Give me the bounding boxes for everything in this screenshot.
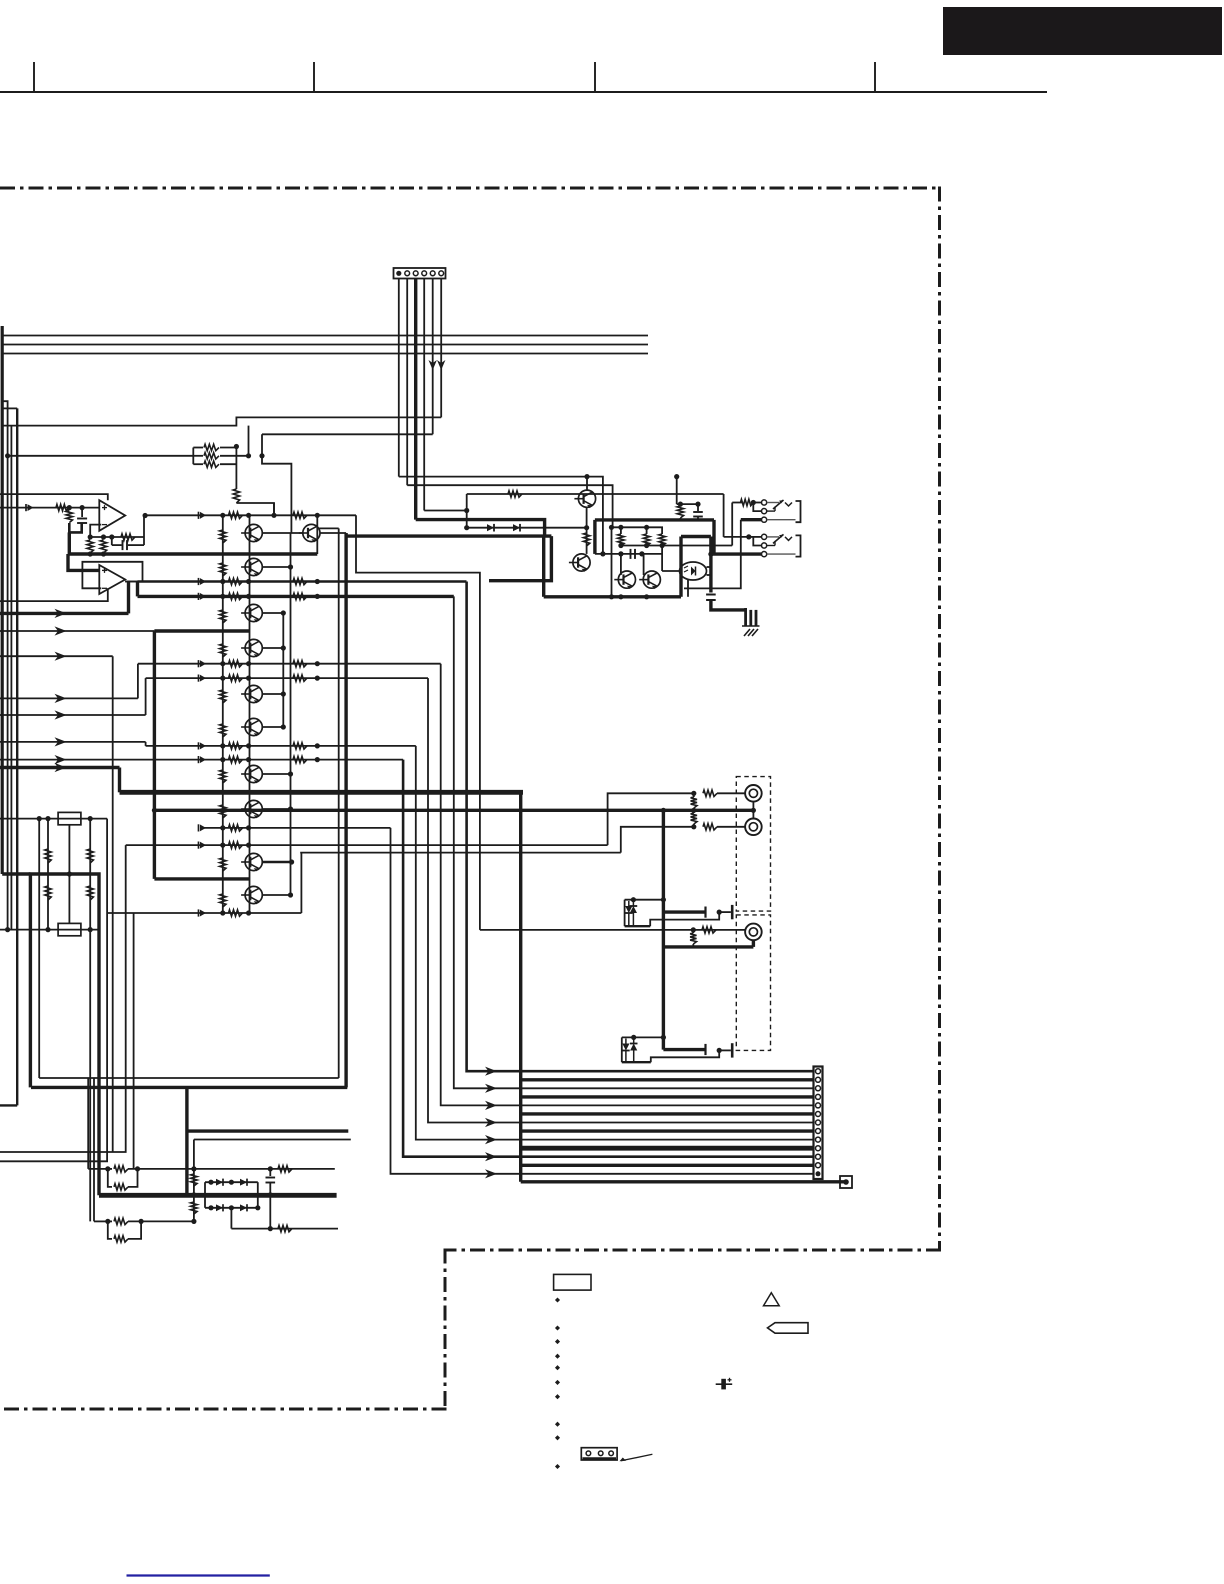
bridge left bracket [204,1182,206,1208]
Q12 emitter chain [586,507,588,554]
wire CN1-3 bold run [416,520,545,537]
transistor Q11 (pair) [299,524,320,542]
cap rail y554 [595,551,662,556]
emitter stub [262,564,293,569]
capacitor C1 input [77,508,87,523]
arrow on wire CN1-6 [437,360,445,370]
legend connector icon [581,1448,617,1460]
P2 feed [621,824,745,853]
rail y504 [677,502,701,507]
junction [246,453,251,458]
bold corner x543 [542,536,545,597]
clamp B bottom rail [622,1050,719,1062]
thin row y1139 [194,1139,351,1141]
row U2 out bold part [138,580,467,583]
riser x94 [93,1078,95,1221]
fan wire to connector [497,1087,814,1089]
wire CN1-1 drop [398,279,400,477]
capacitor C8 plates [706,1043,733,1057]
Q15 base drop [643,554,645,575]
resistor R18 (vert) [87,849,93,863]
bold return trunk [519,792,522,1182]
connector CN2 pin 8 [816,1129,821,1134]
ladder resistor [220,563,226,576]
legend polarized cap symbol [716,1378,733,1390]
board outline dash-dot top [0,187,940,190]
row y572 jog [356,515,480,930]
phone jack J1 [753,500,800,522]
capacitor C4 (vert) [706,595,716,601]
bold rail y1195 [99,1193,337,1198]
connector CN2 body [814,1067,823,1180]
fan wire to connector [497,1173,814,1175]
legend bullet 10 [555,1464,560,1469]
transistor Q5 [241,685,262,703]
resistor R10 [508,491,522,497]
row to RCA2 [300,852,621,854]
bold return row 1 [521,1078,814,1081]
connector CN1 pin 6 [439,271,444,276]
legend box [554,1274,591,1290]
bold rail y519 right [595,518,714,521]
blue underline [127,1574,270,1576]
wire CN1-3 drop (bold) [414,279,417,520]
clamp A top rail [625,897,666,902]
wire CN1-6 drop [440,279,442,418]
wire y433 from CN1-5 [262,433,433,435]
row y1078 [39,1077,339,1079]
base line Q1 [467,493,724,495]
wire to pair driver [236,503,274,515]
wire CN1-2 run [407,485,612,527]
bold rail y878 [154,877,249,880]
row Q-drive 3 [138,660,441,667]
diode D7 [240,1204,247,1211]
emitter stub [262,645,286,650]
res pair A bracket [88,1168,108,1170]
bold riser x137b [136,582,139,597]
fan wire x403 [403,760,497,1162]
connector CN1 pin 4 [422,271,427,276]
Q12 collector [584,474,589,490]
resistor R28 (vert) [691,810,697,827]
bold riser x128 [127,582,130,614]
legend pointer tag [768,1323,809,1334]
test point box [840,1176,852,1188]
column x270 lower [268,1192,273,1228]
vertical x274 link [271,503,276,518]
transistor Q12 [574,490,595,508]
bold return tail [521,1180,846,1183]
J2 tip line [724,534,762,539]
transistor Q15 [639,571,660,589]
op-amp U2 [99,565,125,594]
legend bullet 8 [555,1422,560,1427]
bold rail y946 [663,940,753,947]
capacitor C2 feedback [112,537,144,550]
U2 under wire [0,588,108,601]
riser x133 [133,913,135,1169]
resistor net bracket left [192,448,194,465]
resistor R26 [278,1225,292,1231]
bold rail y1087 [31,1086,347,1089]
rail y527 top [609,525,663,530]
connector CN2 pin 11 [816,1154,821,1159]
diode bridge top rail [205,1180,258,1185]
wire x248 jog [248,426,250,456]
P1-P2 link [751,802,756,819]
node join bold [69,523,81,532]
row U2 out [125,581,466,583]
fan wire to connector [497,1070,814,1073]
dashed box RCA upper [736,777,770,912]
signal arrow line 4 [0,694,138,703]
ladder resistor [220,724,226,737]
clamp B left [621,1037,623,1062]
pair emitter tail [320,532,346,534]
phone jack J2 [753,534,800,556]
ladder resistor [220,805,226,818]
emitter stub [262,771,293,776]
junction [268,1166,273,1171]
emitter stub [262,724,286,729]
clamp A bottom rail [625,912,720,926]
bold rail y536 [346,534,551,537]
junction [5,453,10,458]
U1 minus wire [90,525,101,537]
connector CN2 pin 4 [816,1094,821,1099]
op-amp U1 [99,500,125,531]
bold corner x346 [344,533,347,1087]
wire y455 long [8,455,194,457]
bold vertical x154 [153,631,156,879]
diode D2 [487,524,494,532]
chassis ground [742,608,760,636]
board outline dash-dot bottom left [0,1408,447,1411]
cap line y912 bold [663,910,705,913]
rail y545 [618,543,732,548]
diode D4 [216,1179,223,1186]
transistor Q1 [241,524,262,542]
transistor Q7 [241,765,262,783]
junction [88,534,115,539]
row Q-drive 5 [146,742,416,749]
box resistor RB2 [58,923,81,935]
board outline dash-dot bottom right [445,1249,941,1252]
emitter vertical x290 [290,533,292,895]
legend bullet 4 [555,1354,560,1359]
line through RB2 [0,927,99,932]
emitter stub [262,691,286,696]
RCA jack P3 [745,924,762,941]
wire CN1-5 drop [432,279,434,435]
connector CN2 pin 9 [816,1137,821,1142]
row U2 out symbols [199,578,320,585]
connector CN1 pin 2 [405,271,410,276]
res pair B loop [108,1221,141,1242]
fan wire x453 [454,596,497,1093]
wire CN1-5 jog [262,434,291,533]
input line IN1 [0,507,99,509]
pair link [262,532,303,534]
resistor R8 (vert) [87,540,93,553]
junction [152,808,157,813]
wire x662 drop [661,546,663,572]
transistor Q3 [241,604,262,622]
resistor R2 [193,453,248,459]
resistor R5 input [56,504,69,510]
resistor R20 [108,1166,335,1172]
legend bullet 5 [555,1365,560,1370]
bold x594 drop [593,520,596,554]
bold trunk x663 [662,810,665,1049]
diode D3 [513,524,520,532]
ruler tick 3 [594,62,596,92]
junction [708,552,713,557]
diode D10 (down) [622,1039,630,1063]
left trunk bottom join [2,872,30,875]
resistor R16 (vert) [45,849,51,863]
fan wire to connector [497,1155,814,1158]
ladder resistor [220,530,226,543]
bold return row 2 [521,1095,814,1098]
bold drop to U2 plus [68,554,99,570]
legend bullet 3 [555,1339,560,1344]
row Q-drive 6 [199,756,404,763]
connector CN2 pin 2 [816,1077,821,1082]
res pair B bracket [94,1219,144,1224]
ladder resistor [220,894,226,907]
diode D6 [216,1204,223,1211]
resistor R14 (vert) [659,527,665,546]
junction [67,505,85,510]
bold node drop [68,532,71,554]
title block bar [943,7,1222,55]
J2 tip feed [723,494,725,537]
resistor R17 (vert) [45,886,51,900]
legend bullet 1 [555,1297,560,1302]
legend bullet 7 [555,1394,560,1399]
signal arrow line 8 (bold) [0,763,120,772]
transistor Q10 [241,886,262,904]
diode D5 [240,1179,247,1186]
legend connector arrow [620,1454,653,1461]
opto left lead [662,570,679,572]
junction [661,808,666,813]
junction [88,551,107,556]
row Q-drive 4 [146,675,428,682]
stub corner B [2,407,17,409]
emitter stub [262,892,293,897]
junction [234,444,239,449]
bold return row 6 [521,1164,814,1167]
bold rail y810 [154,809,753,812]
bold riser x186 [185,1087,188,1195]
J1 tip feed [732,499,761,505]
bold corner x714 [712,520,715,554]
signal arrow line 6 [0,737,146,746]
line through RB1 [0,816,107,821]
signal arrow line 7 [0,755,201,764]
signal arrow line 2 [0,626,154,635]
resistor R19 (vert) [87,886,93,900]
wire CN1-1 run [399,477,603,554]
connector CN2 pin 6 [816,1112,821,1117]
ruler tick 4 [874,62,876,92]
ruler tick 1 [33,62,35,92]
capacitor C7 plates [706,905,733,919]
emitter stub [262,806,293,811]
riser x338 [338,528,340,1078]
connector CN1 pin 1 (filled) [396,271,401,276]
bold row y1131 [187,1129,348,1132]
capacitor C5 (vert) [693,504,703,520]
legend bullet 6 [555,1380,560,1385]
wire CN1-4 drop [423,279,425,511]
connector CN2 pin 7 [816,1120,821,1125]
resistor R4 (vert) [233,489,239,503]
ladder resistor [220,858,226,871]
junction [259,453,264,458]
legend bullet 9 [555,1435,560,1440]
stub corner A [2,401,7,929]
base chain x249 [249,515,251,912]
fan wire x466 [467,582,497,1076]
row Q-drive 9 [107,909,302,916]
emitter stub [262,610,286,615]
jog x145 down [145,742,147,746]
board outline dash-dot right [938,187,941,1252]
ladder column x222 [222,515,224,912]
bold return row 4 [521,1129,814,1132]
bridge lower link [230,1208,232,1229]
row Q-drive 7 [199,824,391,831]
U1 output junction [143,513,148,518]
bold staple [30,874,99,1195]
left exit at y1105 [0,1104,17,1106]
clamp B top rail [622,1035,666,1040]
diode line [467,525,590,530]
opto U3 [680,562,707,580]
RCA jack P1 [745,785,762,802]
resistor R22 [108,1218,194,1224]
resistor R15 (vert) [677,477,684,520]
Q14 base drop [620,554,622,575]
junction [105,1166,140,1171]
emitter vertical x283 [282,613,284,727]
ladder resistor [220,690,226,703]
capacitor C6 (vert) [266,1169,276,1195]
diode D8 (down) [625,901,633,926]
vertical x317 [316,515,318,554]
transistor Q2 [241,558,262,576]
fan wire x415 [416,746,497,1144]
resistor R24 (vert) [191,1202,197,1214]
link x69 [67,825,72,924]
opto right leads [707,567,711,575]
Q2 emitter bold [489,536,551,581]
bus line 2 [2,344,648,346]
node column x236 [235,447,237,490]
wire CN1-2 drop [406,279,408,486]
opto bottom lead [687,580,689,597]
bridge right link [257,1182,259,1208]
RCA jack P2 [745,819,762,836]
resistor R25 [278,1166,292,1172]
J1 feed riser [731,503,733,546]
bold return row 5 [521,1146,814,1151]
J1 sleeve bold [741,518,762,521]
ruler tick 2 [313,62,315,92]
fan wire x440 [441,664,497,1110]
bold down x710 [709,537,712,593]
connector CN2 pin 5 [816,1103,821,1108]
P3 resistor R29 (vert) [690,930,696,947]
link y528 [317,527,338,529]
resistor R9 (vert) [100,540,106,553]
wire x611 drop [611,527,613,597]
board outline dash-dot step [444,1249,447,1411]
fan wire to connector [497,1104,814,1106]
op-amp U1 top frame [0,494,108,500]
signal arrow line 1 (bold) [0,609,129,618]
full width bold rail [120,790,524,795]
connector CN1 pin 5 [430,271,435,276]
J1 return riser [684,520,741,589]
resistor R23 (vert) [191,1174,197,1186]
fan wire x390 [391,828,498,1179]
capacitor C3 [631,549,636,559]
U2 feedback box [82,562,142,589]
diode D9 (up) [630,900,638,927]
column x107 [0,819,107,1162]
bold to ground [711,600,746,610]
resistor R27 (vert) [691,793,697,810]
J2 sleeve bold [711,552,762,555]
connector CN1 body [394,268,446,279]
bus line 3 [2,353,648,355]
resistor R11 (vert) [583,533,589,546]
ladder resistor [220,770,226,783]
res pair A loop [108,1169,138,1190]
fan wire to connector [497,1139,814,1141]
riser x145 up [145,678,147,715]
transistor Q13 [569,554,590,572]
signal arrow line 5 [0,710,146,719]
transistor Q9 [241,853,262,871]
top ruler line [0,91,1047,93]
bold rail y631 [154,629,249,632]
row exit y1152 [0,845,126,1152]
row y1228 [231,1226,338,1231]
transistor Q4 [241,639,262,657]
resistor R12 (vert) [618,527,624,546]
clamp A left [624,900,626,927]
column x193 [191,1140,196,1225]
column x90 [89,819,91,1222]
transistor Q6 [241,718,262,736]
resistor R6 to node [66,511,72,523]
row Q-drive 8 [126,842,608,849]
riser x112 down [112,656,114,1152]
bus line 1 [2,335,648,337]
resistor R7 feedback [121,534,135,540]
diode bridge bottom rail [205,1205,260,1210]
connector CN2 pin 10 [816,1146,821,1151]
left vertical x11 [10,426,12,930]
bold return row 3 [521,1112,814,1115]
row Q-drive 2 (bold) [138,593,454,600]
